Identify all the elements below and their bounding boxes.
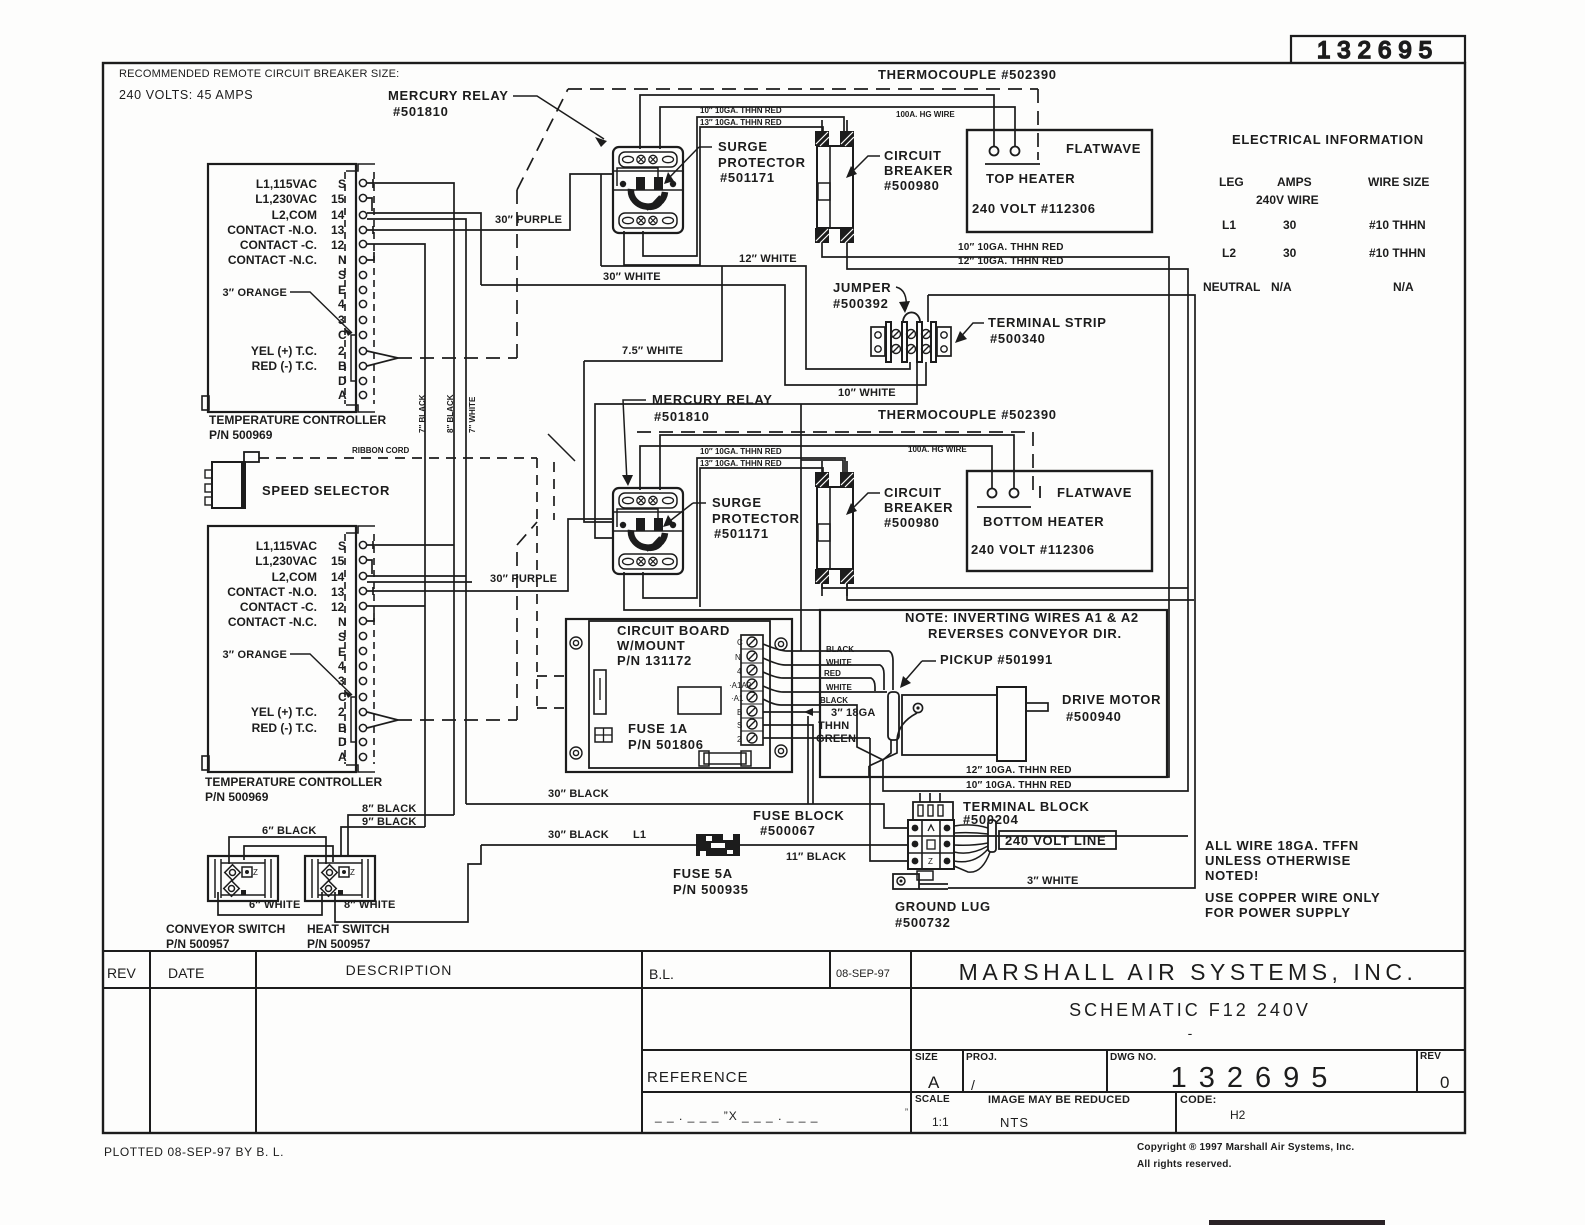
wire tc1 S to vertical 454 — [367, 183, 454, 815]
right bus vertical C strip to ground lug — [928, 295, 1195, 888]
svg-text:BREAKER: BREAKER — [884, 163, 953, 178]
svg-text:12: 12 — [331, 600, 345, 614]
svg-text:12: 12 — [331, 238, 345, 252]
svg-text:240V WIRE: 240V WIRE — [1256, 193, 1319, 207]
svg-text:PROTECTOR: PROTECTOR — [718, 155, 806, 170]
wire tc2 13 purple to relay2 — [367, 519, 613, 591]
terminal tick marks — [372, 179, 374, 188]
svg-text:UNLESS OTHERWISE: UNLESS OTHERWISE — [1205, 853, 1351, 868]
svg-text:0: 0 — [1440, 1073, 1449, 1092]
svg-text:FUSE BLOCK: FUSE BLOCK — [753, 808, 845, 823]
svg-text:REFERENCE: REFERENCE — [647, 1069, 749, 1086]
svg-text:CODE:: CODE: — [1180, 1094, 1216, 1106]
svg-text:PROJ.: PROJ. — [966, 1052, 997, 1063]
svg-text:NTS: NTS — [1000, 1115, 1029, 1130]
wire B bus to terminal block — [954, 835, 1188, 837]
svg-text:IMAGE MAY BE REDUCED: IMAGE MAY BE REDUCED — [988, 1094, 1130, 1106]
wire tc2 12 — [367, 605, 425, 607]
svg-text:13: 13 — [331, 585, 345, 599]
svg-text:P/N 500935: P/N 500935 — [673, 882, 749, 897]
wire 6 black conveyor to heat switch — [229, 837, 326, 864]
wire relay2 loop to breaker2 top right — [624, 572, 820, 610]
svg-text:ELECTRICAL INFORMATION: ELECTRICAL INFORMATION — [1232, 132, 1424, 147]
svg-text:S: S — [338, 539, 346, 553]
svg-text:14: 14 — [331, 208, 345, 222]
drive motor #500940 — [997, 687, 1161, 761]
mercury relay 1 label — [388, 88, 607, 147]
svg-text:SCALE: SCALE — [915, 1094, 950, 1105]
svg-text:13″ 10GA. THHN RED: 13″ 10GA. THHN RED — [700, 118, 782, 127]
pickup #501991 — [888, 652, 1053, 740]
svg-text:DESCRIPTION: DESCRIPTION — [346, 962, 453, 978]
wire tc2 S — [367, 544, 454, 546]
svg-text:AMPS: AMPS — [1277, 175, 1312, 189]
C-D bracket — [351, 335, 357, 381]
svg-text:CIRCUIT: CIRCUIT — [884, 148, 942, 163]
cable clamp — [988, 820, 996, 852]
wire 6 white conveyor to heat switch — [218, 892, 322, 915]
svg-text:L2: L2 — [1222, 246, 1236, 260]
svg-text:BLACK: BLACK — [826, 645, 854, 654]
bottom scan artifact bar — [1209, 1220, 1385, 1225]
svg-text:SPEED SELECTOR: SPEED SELECTOR — [262, 483, 390, 498]
svg-text:2: 2 — [338, 344, 345, 358]
svg-text:THHN: THHN — [818, 720, 849, 732]
svg-text:30″ BLACK: 30″ BLACK — [548, 829, 609, 841]
svg-text:TERMINAL STRIP: TERMINAL STRIP — [988, 315, 1107, 330]
wire relay2 to heater2 terminal b — [660, 435, 1014, 490]
title block — [103, 951, 1465, 1133]
wire to breaker2 top right — [801, 460, 843, 472]
svg-text:6″ BLACK: 6″ BLACK — [262, 825, 317, 837]
svg-text:DRIVE MOTOR: DRIVE MOTOR — [1062, 692, 1161, 707]
svg-text:P/N 500957: P/N 500957 — [307, 937, 371, 951]
terminal block top stubs — [919, 793, 921, 802]
svg-text:P/N 500957: P/N 500957 — [166, 937, 230, 951]
svg-text:SCHEMATIC F12 240V: SCHEMATIC F12 240V — [1069, 1000, 1311, 1020]
svg-text:6″ WHITE: 6″ WHITE — [249, 899, 300, 911]
svg-text:FUSE 5A: FUSE 5A — [673, 866, 733, 881]
svg-text:4: 4 — [737, 667, 742, 676]
svg-text:L1,230VAC: L1,230VAC — [255, 192, 317, 206]
svg-text:3: 3 — [338, 313, 345, 327]
wire 30in white from 481 riser to terminal strip — [481, 285, 926, 385]
wire breaker2 bottom to right bus — [822, 584, 1188, 588]
svg-text:P/N 501806: P/N 501806 — [628, 737, 704, 752]
svg-text:WHITE: WHITE — [826, 683, 852, 692]
svg-text:CONTACT -C.: CONTACT -C. — [240, 600, 317, 614]
svg-text:N: N — [338, 615, 347, 629]
circuit breaker 1 #500980 — [815, 120, 854, 255]
svg-text:C: C — [338, 690, 347, 704]
NOTE box — [820, 610, 1167, 777]
surge protector 1 label — [664, 139, 806, 185]
flatwave bottom heater box — [967, 471, 1152, 571]
svg-text:PROTECTOR: PROTECTOR — [712, 511, 800, 526]
svg-text:8″ WHITE: 8″ WHITE — [344, 899, 395, 911]
mercury relay 2 #501810 — [613, 488, 683, 574]
wire breaker1 bottom red lower / right bus B — [847, 255, 1188, 791]
mercury relay 2 label — [548, 392, 773, 486]
svg-text:-: - — [1188, 1025, 1193, 1041]
svg-text:#500067: #500067 — [760, 823, 816, 838]
svg-text:#501171: #501171 — [720, 170, 775, 185]
svg-text:FOR POWER SUPPLY: FOR POWER SUPPLY — [1205, 905, 1351, 920]
svg-text:#501810: #501810 — [654, 409, 710, 424]
svg-text:#500980: #500980 — [884, 178, 940, 193]
wire length labels — [249, 214, 1078, 911]
board wire labels — [820, 645, 854, 705]
svg-text:10″ 10GA. THHN RED: 10″ 10GA. THHN RED — [958, 242, 1064, 253]
wire 30 black run — [466, 804, 908, 828]
heat switch P/N 500957 — [305, 856, 389, 951]
wire relay1 loop to breaker1 top right — [624, 127, 823, 265]
wire tc1 14 upper — [367, 213, 481, 285]
svg-text:3″ ORANGE: 3″ ORANGE — [222, 287, 287, 299]
svg-text:MERCURY RELAY: MERCURY RELAY — [388, 88, 509, 103]
svg-text:30: 30 — [1283, 218, 1297, 232]
svg-text:#10 THHN: #10 THHN — [1369, 218, 1426, 232]
wire strip top right up — [927, 295, 929, 322]
wire purple vertical into relay1 left — [600, 174, 602, 266]
svg-text:12″ 10GA. THHN RED: 12″ 10GA. THHN RED — [966, 765, 1072, 776]
svg-text:H2: H2 — [1230, 1108, 1246, 1122]
svg-text:MARSHALL AIR SYSTEMS, INC.: MARSHALL AIR SYSTEMS, INC. — [959, 959, 1418, 985]
wire tc1 14 lower — [367, 219, 466, 804]
wire 10in white strip to relay2 — [595, 362, 917, 538]
svg-text:08-SEP-97: 08-SEP-97 — [836, 968, 890, 980]
svg-text:RECOMMENDED REMOTE CIRCUIT BRE: RECOMMENDED REMOTE CIRCUIT BREAKER SIZE: — [119, 68, 399, 80]
wire 30 black L1 run to fuse block — [481, 844, 696, 846]
240 volt line tag — [954, 820, 1116, 872]
svg-text:12″ WHITE: 12″ WHITE — [739, 253, 797, 265]
svg-text:NOTED!: NOTED! — [1205, 868, 1259, 883]
wire 9 black — [341, 827, 425, 857]
svg-text:15: 15 — [331, 192, 345, 206]
thermocouple 2 dashed run — [398, 432, 1033, 720]
svg-text:4: 4 — [338, 659, 345, 673]
svg-text:REV: REV — [1420, 1051, 1441, 1062]
svg-text:FLATWAVE: FLATWAVE — [1057, 485, 1132, 500]
flatwave top heater box — [967, 130, 1152, 232]
svg-text:A: A — [338, 388, 347, 402]
svg-text:240 VOLT #112306: 240 VOLT #112306 — [972, 201, 1096, 216]
wire tc1 N hook — [367, 252, 374, 260]
svg-text:S: S — [338, 268, 346, 282]
circuit board w/mount P/N 131172 — [566, 619, 792, 772]
svg-text:YEL (+) T.C.: YEL (+) T.C. — [251, 344, 317, 358]
board terminal strip — [741, 635, 763, 745]
svg-text:·A1: ·A1 — [731, 694, 744, 703]
terminal block #500204 — [908, 799, 1090, 869]
wire tc2 15 hook — [367, 560, 372, 574]
svg-text:S: S — [338, 177, 346, 191]
svg-text:FLATWAVE: FLATWAVE — [1066, 141, 1141, 156]
svg-text:E: E — [338, 283, 346, 297]
svg-text:TEMPERATURE CONTROLLER: TEMPERATURE CONTROLLER — [205, 775, 382, 789]
terminal circles — [359, 179, 366, 398]
terminal strip #500340 — [871, 312, 951, 362]
mercury relay 1 #501810 — [613, 147, 683, 233]
svg-text:WIRE SIZE: WIRE SIZE — [1368, 175, 1429, 189]
svg-text:CONTACT -N.O.: CONTACT -N.O. — [227, 585, 317, 599]
svg-text:3″ ORANGE: 3″ ORANGE — [222, 649, 287, 661]
sheet frame — [103, 63, 1465, 1133]
thermocouple 1 dashed run — [398, 89, 1038, 358]
svg-text:N/A: N/A — [1393, 280, 1414, 294]
svg-text:W/MOUNT: W/MOUNT — [617, 638, 685, 653]
jumper #500392 label — [833, 280, 910, 313]
conveyor switch P/N 500957 — [166, 856, 285, 951]
svg-text:11″ BLACK: 11″ BLACK — [786, 851, 846, 863]
svg-text:#10 THHN: #10 THHN — [1369, 246, 1426, 260]
svg-text:FUSE 1A: FUSE 1A — [628, 721, 688, 736]
svg-text:C: C — [338, 328, 347, 342]
svg-text:All rights reserved.: All rights reserved. — [1137, 1159, 1232, 1170]
svg-text:E: E — [338, 645, 346, 659]
svg-text:D: D — [338, 374, 347, 388]
svg-text:PLOTTED 08-SEP-97 BY B. L.: PLOTTED 08-SEP-97 BY B. L. — [104, 1145, 284, 1159]
svg-text:L1,115VAC: L1,115VAC — [256, 177, 317, 191]
svg-text:N: N — [735, 653, 741, 662]
svg-text:A: A — [928, 1073, 940, 1092]
svg-text:CONTACT -N.C.: CONTACT -N.C. — [228, 615, 317, 629]
ribbon cord dashed — [259, 458, 566, 708]
wire tc1 13 purple to relay1 — [367, 174, 613, 230]
svg-text:7.5″ WHITE: 7.5″ WHITE — [622, 345, 683, 357]
svg-text:L1,230VAC: L1,230VAC — [255, 554, 317, 568]
svg-text:10″ 10GA. THHN RED: 10″ 10GA. THHN RED — [966, 780, 1072, 791]
drawing number box top right — [1291, 36, 1465, 63]
svg-text:·A1A2: ·A1A2 — [729, 681, 752, 690]
svg-text:CONTACT -N.O.: CONTACT -N.O. — [227, 223, 317, 237]
svg-text:JUMPER: JUMPER — [833, 280, 891, 295]
wire 7.5in white — [584, 266, 722, 361]
svg-text:A: A — [338, 750, 347, 764]
wire tc1 thermocouple legs — [367, 351, 398, 366]
svg-text:RED (-) T.C.: RED (-) T.C. — [252, 721, 317, 735]
svg-text:#500732: #500732 — [895, 915, 951, 930]
svg-text:PICKUP #501991: PICKUP #501991 — [940, 652, 1053, 667]
wire relay1 to heater1 terminal a — [640, 95, 994, 149]
wire board terminal fan to pickup — [763, 644, 893, 690]
svg-text:_ _ . _ _ _ ”X _ _ _ . _ _ _: _ _ . _ _ _ ”X _ _ _ . _ _ _ — [654, 1109, 818, 1123]
svg-text:15: 15 — [331, 554, 345, 568]
svg-text:BOTTOM HEATER: BOTTOM HEATER — [983, 514, 1104, 529]
svg-text:L1: L1 — [633, 829, 646, 841]
wire relay1 to heater1 terminal b — [660, 107, 1015, 149]
svg-text:ALL WIRE 18GA. TFFN: ALL WIRE 18GA. TFFN — [1205, 838, 1359, 853]
svg-text:132695: 132695 — [1317, 37, 1439, 64]
svg-text:3″ WHITE: 3″ WHITE — [1027, 875, 1078, 887]
svg-text:BLACK: BLACK — [820, 696, 848, 705]
svg-text:B: B — [338, 359, 347, 373]
circuit breaker 1 label — [846, 148, 953, 193]
svg-text:3: 3 — [338, 674, 345, 688]
svg-text:N/A: N/A — [1271, 280, 1292, 294]
svg-text:CIRCUIT BOARD: CIRCUIT BOARD — [617, 623, 730, 638]
svg-text:CONTACT -N.C.: CONTACT -N.C. — [228, 253, 317, 267]
svg-text:LEG: LEG — [1219, 175, 1244, 189]
svg-text:Z: Z — [350, 868, 355, 877]
svg-text:Z: Z — [928, 857, 933, 866]
svg-text:8″ BLACK: 8″ BLACK — [362, 803, 417, 815]
svg-text:USE COPPER WIRE ONLY: USE COPPER WIRE ONLY — [1205, 890, 1380, 905]
temperature controller 2 P/N 500969 — [202, 526, 382, 804]
svg-text:B.L.: B.L. — [649, 966, 674, 982]
svg-text:”: ” — [905, 1107, 908, 1117]
svg-text:4: 4 — [338, 297, 345, 311]
wire conveyor white down to terminal block row3 — [870, 738, 908, 861]
svg-text:P/N 500969: P/N 500969 — [209, 428, 273, 442]
svg-text:#501810: #501810 — [393, 104, 449, 119]
svg-text:YEL (+) T.C.: YEL (+) T.C. — [251, 705, 317, 719]
svg-text:TOP HEATER: TOP HEATER — [986, 171, 1075, 186]
ground lug #500732 — [893, 871, 991, 930]
svg-text:3″ 18GA: 3″ 18GA — [831, 707, 876, 719]
wire 12in white from relay loop to terminal strip — [601, 266, 910, 369]
svg-text:HEAT SWITCH: HEAT SWITCH — [307, 922, 389, 936]
fuse block #500067 — [673, 808, 846, 897]
svg-text:GROUND LUG: GROUND LUG — [895, 899, 991, 914]
svg-text:N: N — [338, 253, 347, 267]
green wire vertical — [807, 716, 809, 804]
svg-text:30″ PURPLE: 30″ PURPLE — [495, 214, 562, 226]
wire fuse block to terminal block row2 — [739, 844, 908, 846]
svg-text:RIBBON CORD: RIBBON CORD — [352, 446, 410, 455]
svg-text:1:1: 1:1 — [932, 1115, 949, 1129]
svg-text:30″ PURPLE: 30″ PURPLE — [490, 573, 557, 585]
circuit breaker 2 label — [846, 485, 953, 530]
small arrow for green wire — [806, 711, 820, 713]
svg-text:B: B — [737, 708, 742, 717]
svg-text:#500340: #500340 — [990, 331, 1046, 346]
svg-text:100A. HG WIRE: 100A. HG WIRE — [896, 110, 955, 119]
svg-text:10″ WHITE: 10″ WHITE — [838, 387, 896, 399]
wire tc2 thermocouple legs — [367, 712, 398, 728]
wire conveyor square jumper — [244, 846, 333, 862]
svg-text:/: / — [971, 1077, 975, 1093]
conveyor body — [902, 695, 997, 755]
svg-text:7″ WHITE: 7″ WHITE — [468, 396, 477, 433]
svg-text:S: S — [737, 721, 742, 730]
3" ORANGE leader — [290, 292, 352, 333]
wire breaker1 bottom red upper / right bus A — [822, 255, 1169, 777]
svg-text:B: B — [338, 721, 347, 735]
wire 8 black — [348, 815, 454, 857]
svg-text:C: C — [737, 638, 743, 647]
svg-text:L2,COM: L2,COM — [272, 208, 317, 222]
svg-text:P/N 131172: P/N 131172 — [617, 653, 692, 668]
svg-text:30″ WHITE: 30″ WHITE — [603, 271, 661, 283]
svg-text:#501171: #501171 — [714, 526, 769, 541]
wire tc2 N hook — [367, 613, 374, 621]
svg-text:Copyright ® 1997 Marshall Air: Copyright ® 1997 Marshall Air Systems, I… — [1137, 1142, 1354, 1153]
wire relay2 loop to breaker2 top left — [643, 458, 845, 598]
svg-text:2: 2 — [737, 735, 742, 744]
svg-text:240 VOLT #112306: 240 VOLT #112306 — [971, 542, 1095, 557]
right-side notes — [1205, 838, 1380, 920]
svg-text:TEMPERATURE CONTROLLER: TEMPERATURE CONTROLLER — [209, 413, 386, 427]
svg-text:DWG NO.: DWG NO. — [1110, 1052, 1156, 1063]
svg-text:SURGE: SURGE — [712, 495, 762, 510]
svg-text:SIZE: SIZE — [915, 1052, 938, 1063]
svg-text:DATE: DATE — [168, 965, 204, 981]
svg-text:#500980: #500980 — [884, 515, 940, 530]
svg-text:NOTE: INVERTING WIRES A1 & A2: NOTE: INVERTING WIRES A1 & A2 — [905, 610, 1139, 625]
circuit breaker 2 #500980 — [815, 461, 854, 596]
wire tc2 14 — [367, 575, 466, 577]
svg-text:S: S — [338, 630, 346, 644]
svg-text:GREEN: GREEN — [816, 733, 856, 745]
svg-text:RED: RED — [824, 669, 841, 678]
svg-text:L1: L1 — [1222, 218, 1236, 232]
wire white riser to L1 run — [335, 845, 481, 922]
svg-text:BREAKER: BREAKER — [884, 500, 953, 515]
svg-text:NEUTRAL: NEUTRAL — [1203, 280, 1260, 294]
svg-text:30″ BLACK: 30″ BLACK — [548, 788, 609, 800]
svg-text:#500940: #500940 — [1066, 709, 1122, 724]
svg-text:THERMOCOUPLE #502390: THERMOCOUPLE #502390 — [878, 407, 1057, 422]
wire pickup curves to red bus — [869, 713, 917, 766]
surge protector 2 label — [663, 495, 800, 541]
svg-text:CIRCUIT: CIRCUIT — [884, 485, 942, 500]
svg-text:SURGE: SURGE — [718, 139, 768, 154]
wire fan from terminal block — [954, 825, 990, 872]
svg-text:30: 30 — [1283, 246, 1297, 260]
svg-text:REV: REV — [107, 965, 136, 981]
svg-text:132695: 132695 — [1171, 1062, 1340, 1094]
svg-text:P/N 500969: P/N 500969 — [205, 790, 269, 804]
svg-text:10″ 10GA. THHN RED: 10″ 10GA. THHN RED — [700, 447, 782, 456]
svg-text:L1,115VAC: L1,115VAC — [256, 539, 317, 553]
heater1 terminal bracket — [1037, 152, 1039, 160]
svg-text:L2,COM: L2,COM — [272, 570, 317, 584]
terminal strip label — [955, 315, 1107, 346]
wire relay2 to heater2 terminal a — [640, 446, 992, 490]
svg-text:REVERSES CONVEYOR DIR.: REVERSES CONVEYOR DIR. — [928, 626, 1122, 641]
ELECTRICAL INFORMATION table — [1203, 132, 1429, 294]
svg-text:13″ 10GA. THHN RED: 13″ 10GA. THHN RED — [700, 459, 782, 468]
svg-text:14: 14 — [331, 570, 345, 584]
wire tc1 15 hook — [367, 198, 372, 211]
svg-text:2: 2 — [338, 705, 345, 719]
svg-text:THERMOCOUPLE #502390: THERMOCOUPLE #502390 — [878, 67, 1057, 82]
wire tc1 12 — [367, 244, 425, 827]
svg-text:Z: Z — [253, 868, 258, 877]
svg-text:#500392: #500392 — [833, 296, 889, 311]
svg-text:CONTACT -C.: CONTACT -C. — [240, 238, 317, 252]
svg-text:RED (-) T.C.: RED (-) T.C. — [252, 359, 317, 373]
wire relay1 loop to breaker1 top left — [643, 117, 844, 256]
jumper wire arc over strip — [903, 312, 920, 322]
svg-text:CONVEYOR SWITCH: CONVEYOR SWITCH — [166, 922, 285, 936]
svg-text:D: D — [338, 735, 347, 749]
speed selector — [205, 446, 410, 508]
temperature controller 1 P/N 500969 — [202, 164, 386, 442]
top-left note — [119, 68, 399, 102]
wire vertical feed at 801 — [800, 404, 802, 651]
svg-text:13: 13 — [331, 223, 345, 237]
svg-text:240 VOLTS: 45 AMPS: 240 VOLTS: 45 AMPS — [119, 88, 253, 102]
